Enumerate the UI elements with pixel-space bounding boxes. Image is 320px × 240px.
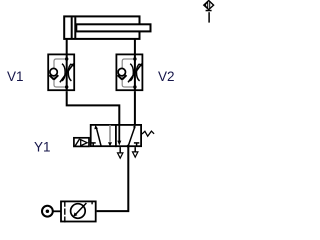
cylinder piston rod: [76, 24, 150, 31]
svg-text:Y1: Y1: [34, 140, 51, 155]
compressed air source: [42, 206, 53, 217]
V1 main line: [66, 53, 68, 91]
wire: cylinder left port to V1: [66, 38, 68, 55]
wire below diamond: [208, 12, 210, 22]
V2 throttle arcs: [130, 64, 133, 81]
Y1 right box: arrow 4-5: [118, 125, 120, 142]
diamond inner lines: [207, 2, 209, 9]
service unit regulator arrow: [75, 203, 87, 216]
V1 body: [48, 54, 74, 90]
diamond inner arc: [205, 3, 207, 8]
service unit: [61, 201, 96, 221]
Y1 port junction dot: [127, 145, 130, 148]
Y1 exhaust port 3: [134, 147, 136, 152]
wire: V2 to valve Y1 port 2: [134, 91, 136, 125]
Y1 right box: blocked port T: [134, 142, 139, 144]
Y1 left box: blocked port T: [91, 142, 96, 144]
clipped component top-right: diamond: [204, 1, 214, 10]
valve Y1: 5/2-way solenoid valve body: [91, 125, 141, 146]
Y1 left box: arrow 1-4: [96, 128, 101, 147]
V1 throttle arrow: [60, 65, 73, 82]
V1 junction dots: [65, 57, 68, 60]
Y1 position divider: [115, 124, 117, 147]
Y1 solenoid: [74, 138, 89, 147]
wire: V1 to valve Y1 port 4: [67, 91, 120, 125]
svg-text:V2: V2: [158, 69, 175, 84]
wire: cylinder right port to V2: [134, 38, 136, 55]
Y1 exhaust port 5: [119, 147, 121, 153]
V1 bypass (gray): [54, 59, 67, 87]
bar below diamond: [206, 10, 212, 12]
V1 check valve: [50, 68, 57, 75]
valve V1: one-way flow control: [48, 53, 74, 91]
service unit vent tick: [91, 201, 93, 205]
Y1 left box: gray arrow 2-3: [109, 125, 111, 142]
valve V2: one-way flow control: [116, 53, 142, 91]
V2 junction dots: [133, 57, 136, 60]
cylinder piston: [71, 17, 73, 38]
svg-text:V1: V1: [7, 69, 24, 84]
Y1 right box: arrow 1-2: [128, 127, 135, 147]
V2 body: [116, 54, 142, 90]
wire: source to service unit: [53, 210, 61, 212]
V2 check valve: [118, 68, 125, 75]
wire: valve Y1 port 1 to service unit: [97, 147, 129, 211]
V2 bypass (gray): [122, 59, 135, 87]
service unit regulator circle: [71, 204, 86, 219]
Y1 return spring: [142, 131, 154, 136]
cylinder body: [64, 16, 139, 39]
V2 main line: [134, 53, 136, 91]
service unit filter divider (dashed): [64, 201, 66, 223]
V1 throttle arcs: [62, 64, 65, 81]
V2 throttle arrow: [128, 65, 141, 82]
